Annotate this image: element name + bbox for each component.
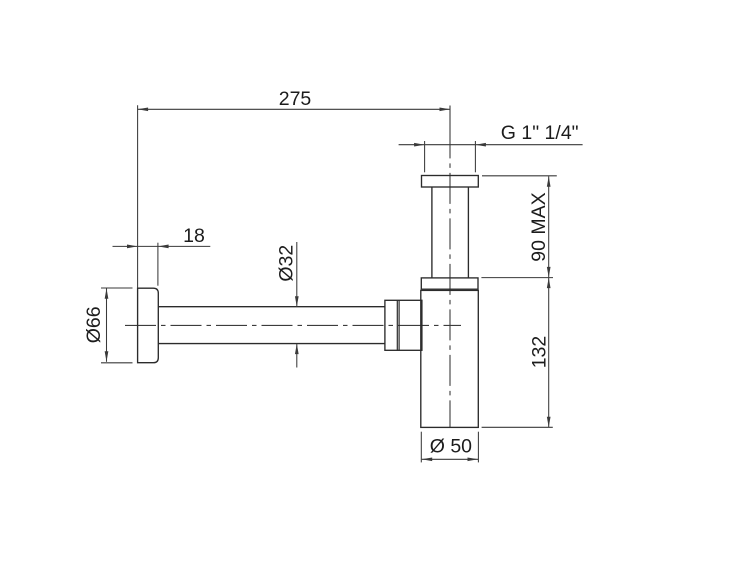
dimension 275 [138, 105, 450, 288]
svg-text:132: 132 [528, 336, 550, 369]
dimension 18 [113, 243, 211, 286]
vertical pipe [431, 187, 433, 278]
svg-text:Ø32: Ø32 [275, 245, 297, 282]
dimension Ø32 [296, 242, 298, 368]
svg-text:18: 18 [183, 225, 205, 247]
svg-text:Ø66: Ø66 [83, 306, 105, 343]
svg-text:G 1" 1/4": G 1" 1/4" [501, 122, 579, 144]
wall flange rosette Ø66 [138, 288, 159, 363]
dimension 90 MAX [482, 176, 557, 278]
dimension 132 [481, 278, 553, 428]
top flange [422, 176, 479, 188]
dimension Ø66 [101, 288, 133, 363]
svg-text:Ø 50: Ø 50 [430, 436, 472, 458]
centerline vertical body axis [449, 106, 451, 159]
inlet pipe horizontal Ø32 [158, 306, 385, 308]
trap body cylinder [421, 290, 479, 427]
svg-text:90 MAX: 90 MAX [528, 192, 550, 261]
inlet nut [385, 300, 422, 350]
svg-text:275: 275 [279, 88, 312, 110]
centerline horizontal pipe axis [125, 324, 461, 326]
dimension G 1" 1/4" [399, 141, 583, 172]
inlet nut double line [396, 300, 398, 350]
top nut [421, 278, 478, 289]
dimension Ø 50 [421, 432, 478, 463]
